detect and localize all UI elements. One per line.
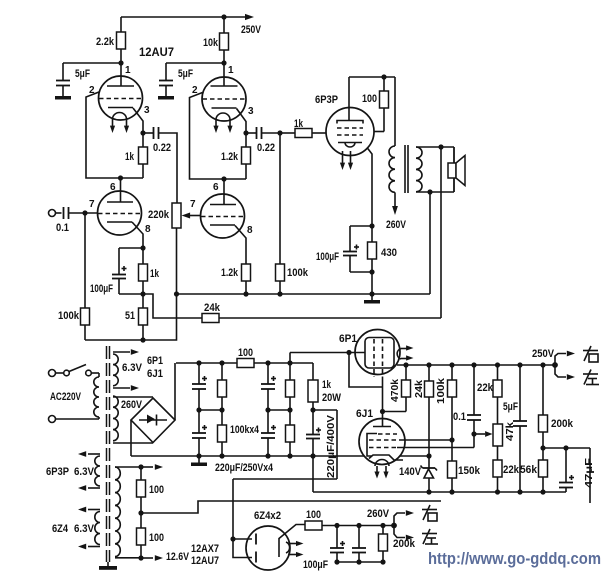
svg-text:56k: 56k — [520, 464, 538, 476]
svg-text:100: 100 — [362, 93, 377, 105]
svg-text:7: 7 — [190, 199, 196, 210]
svg-text:12AU7: 12AU7 — [139, 45, 174, 59]
svg-text:6Z4: 6Z4 — [52, 523, 69, 535]
svg-text:0.22: 0.22 — [153, 142, 171, 154]
svg-text:260V: 260V — [367, 508, 390, 520]
svg-text:6.3V: 6.3V — [74, 466, 95, 478]
svg-text:47μF: 47μF — [584, 458, 595, 488]
svg-text:6P3P: 6P3P — [46, 466, 69, 478]
svg-text:12.6V: 12.6V — [166, 551, 190, 563]
svg-text:100k: 100k — [287, 267, 309, 279]
svg-text:100μF: 100μF — [303, 559, 328, 571]
svg-text:6.3V: 6.3V — [122, 362, 143, 374]
svg-text:140V: 140V — [399, 466, 422, 478]
svg-text:150k: 150k — [458, 465, 481, 477]
svg-text:6P3P: 6P3P — [315, 94, 338, 106]
svg-text:100k: 100k — [436, 377, 447, 404]
svg-text:430: 430 — [381, 247, 397, 259]
svg-text:0.22: 0.22 — [257, 142, 275, 154]
svg-text:12AU7: 12AU7 — [191, 555, 219, 567]
svg-text:8: 8 — [145, 224, 151, 235]
svg-text:6Z4x2: 6Z4x2 — [254, 510, 281, 522]
svg-text:10k: 10k — [203, 37, 219, 49]
svg-text:100μF: 100μF — [316, 251, 339, 263]
svg-text:12AX7: 12AX7 — [191, 543, 219, 555]
svg-text:1k: 1k — [294, 118, 304, 130]
svg-text:6P1: 6P1 — [339, 333, 357, 345]
svg-text:AC220V: AC220V — [50, 391, 81, 403]
svg-text:100: 100 — [238, 347, 253, 359]
svg-text:20W: 20W — [322, 392, 342, 404]
svg-text:5μF: 5μF — [178, 68, 193, 80]
svg-text:1k: 1k — [125, 151, 135, 163]
svg-text:2.2k: 2.2k — [96, 36, 115, 48]
svg-text:260V: 260V — [121, 399, 143, 411]
svg-text:220k: 220k — [148, 209, 170, 221]
svg-text:100: 100 — [306, 509, 321, 521]
svg-text:200k: 200k — [393, 538, 416, 550]
svg-text:22k: 22k — [477, 382, 494, 394]
svg-text:22k: 22k — [503, 464, 520, 476]
svg-text:24k: 24k — [414, 380, 425, 398]
svg-text:7: 7 — [89, 199, 95, 210]
svg-text:http://www.go-gddq.com: http://www.go-gddq.com — [428, 549, 601, 568]
svg-text:0.1: 0.1 — [453, 411, 466, 423]
svg-text:100: 100 — [149, 484, 164, 496]
svg-text:6: 6 — [110, 182, 116, 193]
svg-text:470k: 470k — [390, 379, 401, 402]
svg-text:1k: 1k — [322, 379, 332, 391]
svg-text:1.2k: 1.2k — [221, 267, 239, 279]
svg-text:6: 6 — [213, 182, 219, 193]
svg-text:6J1: 6J1 — [147, 368, 163, 380]
svg-text:200k: 200k — [551, 418, 574, 430]
svg-text:100μF: 100μF — [90, 283, 113, 295]
svg-text:3: 3 — [144, 105, 150, 116]
svg-text:100kx4: 100kx4 — [230, 424, 260, 436]
svg-text:1.2k: 1.2k — [221, 151, 239, 163]
svg-text:51: 51 — [125, 310, 135, 322]
svg-text:1k: 1k — [150, 268, 160, 280]
svg-text:5μF: 5μF — [75, 68, 90, 80]
svg-text:100k: 100k — [58, 310, 80, 322]
svg-text:100: 100 — [149, 532, 164, 544]
svg-text:2: 2 — [192, 85, 198, 96]
svg-text:5μF: 5μF — [503, 401, 518, 413]
svg-text:220μF/250Vx4: 220μF/250Vx4 — [215, 462, 274, 474]
svg-text:6J1: 6J1 — [356, 408, 373, 420]
svg-text:260V: 260V — [386, 219, 407, 231]
svg-text:8: 8 — [247, 225, 253, 236]
svg-text:6.3V: 6.3V — [74, 523, 95, 535]
svg-text:1: 1 — [228, 65, 234, 76]
svg-text:0.1: 0.1 — [56, 222, 69, 234]
svg-text:220μF/400V: 220μF/400V — [326, 415, 337, 478]
svg-text:1: 1 — [125, 65, 131, 76]
svg-text:6P1: 6P1 — [147, 355, 163, 367]
svg-text:2: 2 — [89, 85, 95, 96]
svg-text:250V: 250V — [532, 348, 555, 360]
svg-text:3: 3 — [248, 106, 254, 117]
svg-text:24k: 24k — [204, 302, 221, 314]
svg-text:47k: 47k — [505, 422, 516, 441]
svg-text:250V: 250V — [241, 24, 262, 36]
